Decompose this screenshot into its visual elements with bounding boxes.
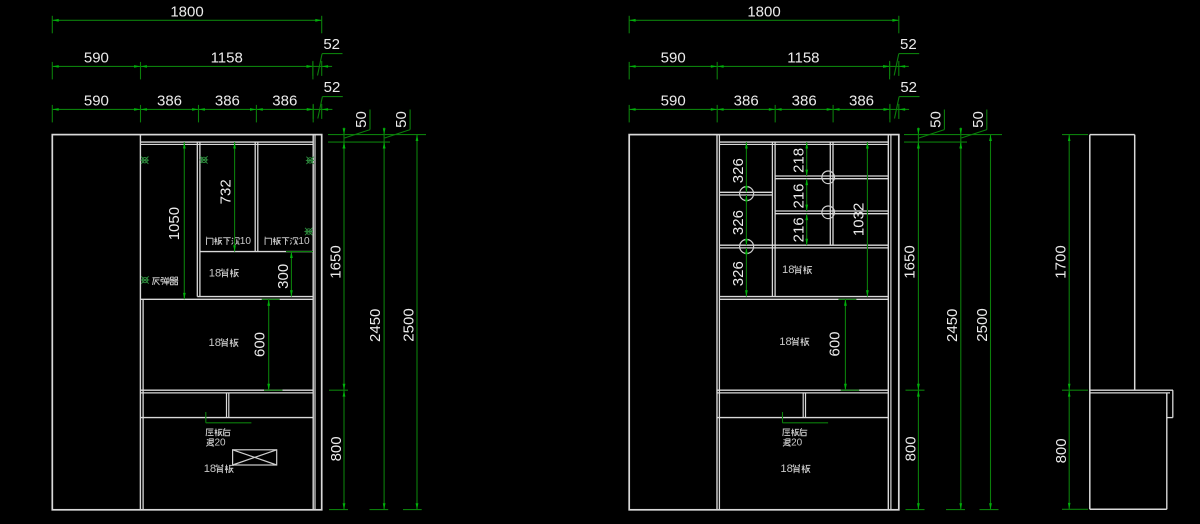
right cabinet shelf A	[775, 176, 888, 179]
svg-text:2450: 2450	[944, 309, 961, 342]
svg-text:600: 600	[251, 332, 268, 357]
label shelf setback line2	[206, 438, 226, 449]
dim 50 second right	[959, 110, 986, 149]
left cabinet counter lines	[140, 390, 313, 393]
label 18 back panel middle	[209, 337, 239, 349]
right cabinet outer frame	[629, 135, 899, 510]
grommet circle 3	[822, 171, 835, 184]
svg-text:326: 326	[730, 158, 747, 183]
svg-text:800: 800	[328, 436, 345, 461]
svg-text:1700: 1700	[1053, 245, 1070, 278]
hinge mark right side top	[306, 157, 315, 164]
svg-text:20: 20	[215, 438, 227, 449]
svg-text:1158: 1158	[787, 49, 819, 66]
dim 2450 left	[367, 142, 385, 510]
ext 600 top left	[262, 298, 280, 300]
svg-text:52: 52	[324, 79, 341, 96]
leader shelf setback right	[783, 412, 829, 423]
svg-text:18: 18	[204, 463, 216, 475]
svg-text:326: 326	[730, 261, 747, 286]
svg-text:300: 300	[275, 264, 292, 289]
right cabinet right side panel	[888, 135, 891, 510]
ext inner top right	[904, 141, 967, 143]
dim 1032	[850, 142, 868, 297]
svg-text:18: 18	[209, 337, 221, 349]
ext 600 bottom right	[841, 389, 860, 391]
dim row3 right 590/386x3	[629, 92, 890, 122]
right cabinet shelf C	[719, 245, 888, 248]
right cabinet partition at 590	[717, 135, 719, 510]
ext bottom c left	[403, 509, 422, 511]
svg-text:386: 386	[272, 92, 297, 109]
svg-text:1800: 1800	[170, 3, 203, 20]
grommet circle 4	[822, 206, 835, 219]
left cabinet right side panel	[313, 135, 315, 510]
dim row3 left 52	[307, 79, 343, 119]
dim 2450 right	[944, 142, 962, 510]
ext bottom b right	[946, 509, 965, 511]
dim 326 x3	[730, 142, 748, 297]
svg-text:386: 386	[792, 92, 817, 109]
svg-text:386: 386	[215, 92, 240, 109]
dim 1050	[166, 142, 186, 299]
left cabinet upper section bottom	[140, 297, 313, 300]
svg-text:386: 386	[157, 92, 182, 109]
dim row2 left 590/1158	[52, 49, 313, 79]
svg-text:18: 18	[779, 336, 791, 348]
dim row2 left 52	[306, 36, 342, 76]
left cabinet partition B	[255, 142, 258, 252]
svg-text:1800: 1800	[747, 3, 780, 20]
ext counter right	[906, 389, 925, 391]
svg-text:1050: 1050	[166, 207, 183, 240]
svg-text:18: 18	[782, 264, 794, 276]
ext top edge left	[328, 134, 426, 136]
side view counter top	[1090, 390, 1173, 393]
dim 50 first left	[343, 110, 370, 149]
dim 1700/800 side	[1053, 135, 1071, 510]
dim row2 right 52	[883, 36, 919, 76]
hinge mark right side mid	[304, 228, 313, 235]
svg-text:52: 52	[900, 36, 917, 53]
dim row1 left 1800	[52, 3, 321, 33]
svg-text:50: 50	[353, 111, 370, 128]
right cabinet upper section bottom	[719, 297, 888, 300]
svg-text:52: 52	[323, 36, 340, 53]
svg-text:50: 50	[970, 111, 987, 128]
label door-drop 10 left	[206, 236, 251, 247]
ext side counter	[1062, 389, 1088, 391]
svg-text:326: 326	[730, 210, 747, 235]
svg-text:800: 800	[1053, 438, 1070, 463]
side view tall back panel	[1090, 135, 1135, 510]
ext bottom b left	[370, 509, 389, 511]
side view base box	[1090, 393, 1167, 509]
label rebounder	[153, 277, 179, 285]
leader shelf setback left	[206, 412, 252, 423]
ext 600 top right	[838, 298, 856, 300]
svg-text:732: 732	[217, 179, 234, 204]
svg-text:10: 10	[240, 236, 252, 247]
svg-text:600: 600	[826, 331, 843, 356]
right cabinet partition A	[772, 142, 775, 297]
label 18 back panel upper right	[782, 264, 812, 276]
dim 2500 left	[400, 135, 418, 510]
ext counter left	[329, 389, 348, 391]
svg-text:386: 386	[849, 92, 874, 109]
label 18 back panel upper	[209, 267, 239, 279]
svg-text:590: 590	[84, 49, 109, 66]
svg-text:218: 218	[791, 148, 808, 173]
right cabinet drawer strip bottom	[717, 417, 888, 419]
dim 300	[275, 252, 293, 297]
svg-text:1650: 1650	[902, 245, 919, 278]
dim row3 left 590/386x3	[52, 92, 313, 122]
left cabinet drawer divider	[227, 393, 229, 418]
svg-text:1650: 1650	[327, 245, 344, 278]
dim 50 second left	[383, 110, 410, 149]
svg-text:1158: 1158	[211, 49, 243, 66]
grommet circle 1	[740, 187, 754, 201]
ext inner top left	[328, 141, 390, 143]
ext side bottom	[1062, 508, 1088, 510]
left cabinet top rail lines	[140, 142, 313, 144]
svg-text:50: 50	[927, 111, 944, 128]
left cabinet partition A	[197, 142, 200, 297]
label shelf setback line2 right	[783, 438, 803, 449]
left cabinet partition at 590	[140, 135, 143, 510]
left cabinet outer frame	[52, 135, 321, 510]
ext bottom c right	[980, 509, 999, 511]
dim 50 first right	[917, 110, 944, 149]
svg-text:18: 18	[780, 463, 792, 475]
left cabinet crossed blocking rect	[233, 450, 277, 465]
left cabinet drawer strip bottom	[140, 417, 313, 419]
svg-text:1032: 1032	[850, 203, 867, 236]
svg-text:216: 216	[791, 217, 808, 242]
label shelf setback line1	[206, 428, 230, 436]
ext side top	[1062, 134, 1088, 136]
grommet circle 2	[740, 240, 754, 254]
label door-drop 10 right	[265, 236, 310, 247]
label 18 back panel bottom	[204, 463, 234, 475]
right cabinet partition B	[830, 142, 833, 245]
svg-text:50: 50	[393, 111, 410, 128]
hinge mark left partition mid	[141, 276, 150, 283]
right cabinet top rail lines	[719, 142, 888, 144]
ext 600 bottom left	[264, 389, 283, 391]
right cabinet counter lines	[717, 390, 888, 393]
dim row3 right 52	[883, 79, 919, 119]
svg-text:10: 10	[298, 236, 310, 247]
svg-text:800: 800	[902, 436, 919, 461]
hinge mark partition A top	[200, 156, 209, 163]
dim 1650/800 left	[327, 142, 345, 510]
svg-text:52: 52	[900, 79, 917, 96]
svg-text:2500: 2500	[974, 308, 991, 341]
svg-text:216: 216	[791, 183, 808, 208]
dim 600 right	[826, 299, 846, 390]
ext bottom a right	[906, 509, 925, 511]
dim 2500 right	[974, 135, 992, 510]
svg-text:2450: 2450	[367, 309, 384, 342]
label shelf setback line1 right	[783, 428, 807, 436]
side view counter lip	[1167, 390, 1173, 417]
dim row2 right 590/1158	[629, 49, 889, 79]
label 18 back panel bottom right	[780, 463, 810, 475]
dim 600 left	[251, 299, 270, 390]
dim row1 right 1800	[629, 3, 899, 33]
right cabinet drawer divider	[803, 393, 805, 418]
ext 300 top left	[286, 251, 313, 253]
svg-text:18: 18	[209, 267, 221, 279]
ext top edge right	[904, 134, 1002, 136]
dim 218/216/216	[791, 142, 809, 245]
label 18 back panel middle right	[779, 336, 809, 348]
left cabinet shelf at 732	[200, 251, 313, 253]
svg-text:2500: 2500	[400, 308, 417, 341]
svg-text:20: 20	[791, 438, 803, 449]
right cabinet shelf1 left col	[719, 192, 772, 195]
right cabinet shelf B	[775, 211, 888, 214]
svg-text:386: 386	[734, 92, 759, 109]
hinge mark left partition top	[140, 157, 149, 164]
svg-text:590: 590	[84, 92, 109, 109]
svg-text:590: 590	[661, 92, 686, 109]
ext bottom a left	[329, 509, 348, 511]
dim 1650/800 right	[902, 142, 920, 510]
svg-text:590: 590	[661, 49, 686, 66]
dim 732	[217, 142, 236, 252]
